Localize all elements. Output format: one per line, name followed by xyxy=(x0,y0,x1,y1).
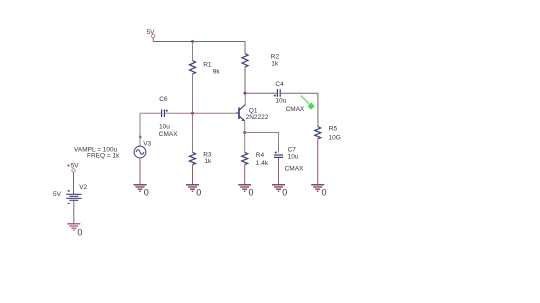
wire R4 upper lead xyxy=(244,133,246,153)
svg-text:C6: C6 xyxy=(159,96,168,103)
svg-text:V2: V2 xyxy=(79,184,87,191)
value 10G xyxy=(329,134,341,141)
ground 0 under C7 xyxy=(272,185,287,198)
value 10u xyxy=(288,154,299,161)
power terminal VCC xyxy=(152,35,155,42)
ground 0 under V2 xyxy=(67,224,82,238)
svg-text:0: 0 xyxy=(282,188,287,198)
power terminal +5V xyxy=(72,169,75,194)
transistor Q1 xyxy=(236,105,245,122)
wire R5 lower lead to ground xyxy=(317,139,319,184)
value 1.4k xyxy=(256,160,269,167)
wire V3 top lead xyxy=(139,113,141,146)
ground 0 under R4 xyxy=(238,185,253,198)
label R5 xyxy=(329,126,338,133)
svg-text:R4: R4 xyxy=(256,152,265,159)
wire collector node to Q1 collector xyxy=(244,93,246,104)
label VAMPL xyxy=(74,146,118,153)
node VCC label 5V xyxy=(147,29,156,36)
attribute CMAX xyxy=(285,165,304,172)
svg-text:10u: 10u xyxy=(159,123,170,130)
svg-text:1k: 1k xyxy=(204,158,212,165)
attribute CMAX xyxy=(159,131,178,138)
wire R4 lower lead to ground xyxy=(244,165,246,185)
label Q1 xyxy=(249,108,258,115)
ground 0 under V3 xyxy=(134,185,149,198)
node +5V label xyxy=(67,163,79,170)
svg-text:9k: 9k xyxy=(213,68,221,75)
value 1k xyxy=(204,158,212,165)
label R1 xyxy=(203,62,212,69)
svg-text:10u: 10u xyxy=(275,98,286,105)
svg-text:FREQ = 1k: FREQ = 1k xyxy=(87,152,120,159)
wire base xyxy=(165,112,236,114)
wire R2 lower lead to collector node xyxy=(244,67,246,93)
wire C6 left lead xyxy=(140,112,161,114)
wire C4 to R5 xyxy=(281,93,318,126)
value 5V xyxy=(53,191,62,198)
svg-text:5V: 5V xyxy=(53,191,62,198)
value 1k xyxy=(271,60,279,67)
svg-text:1k: 1k xyxy=(271,60,279,67)
probe marker xyxy=(301,96,315,110)
resistor R5 xyxy=(315,127,321,139)
svg-text:0: 0 xyxy=(77,227,82,237)
wire C7 lower lead to ground xyxy=(278,158,280,184)
value 10u xyxy=(275,98,286,105)
wire V3 bottom lead xyxy=(139,158,141,184)
value 10u xyxy=(159,123,170,130)
svg-text:V3: V3 xyxy=(143,141,151,148)
value 2N2222 xyxy=(246,114,269,121)
svg-text:C4: C4 xyxy=(275,81,284,88)
junction base node xyxy=(191,112,194,115)
capacitor C4 xyxy=(274,89,281,97)
label R2 xyxy=(271,54,280,61)
wire emitter node to C7 xyxy=(245,133,279,153)
junction emitter node xyxy=(243,131,246,134)
ground 0 under R3 xyxy=(186,185,201,198)
wire R3 upper lead xyxy=(192,113,194,152)
wire R1 upper lead xyxy=(192,42,194,61)
label R4 xyxy=(256,152,265,159)
resistor R4 xyxy=(242,152,248,164)
svg-text:0: 0 xyxy=(249,188,254,198)
resistor R1 xyxy=(190,61,196,75)
label R3 xyxy=(203,152,212,159)
svg-text:CMAX: CMAX xyxy=(159,131,178,138)
wire V2 bottom lead xyxy=(73,200,75,223)
svg-text:CMAX: CMAX xyxy=(285,165,304,172)
V3 plus mark xyxy=(139,136,142,139)
svg-text:CMAX: CMAX xyxy=(286,106,305,113)
wire Q1 emitter to node xyxy=(244,121,246,133)
label C7 xyxy=(288,147,297,154)
svg-text:0: 0 xyxy=(144,188,149,198)
svg-text:0: 0 xyxy=(196,188,201,198)
wire top rail xyxy=(153,41,245,43)
label V3 xyxy=(143,141,151,148)
svg-text:R1: R1 xyxy=(203,62,212,69)
capacitor C6 xyxy=(162,110,168,118)
wire R3 lower lead to ground xyxy=(192,165,194,185)
svg-text:0: 0 xyxy=(322,188,327,198)
junction collector node / C4 xyxy=(244,92,247,95)
ground 0 under R5 xyxy=(311,185,326,198)
svg-text:2N2222: 2N2222 xyxy=(246,114,269,121)
label FREQ xyxy=(87,152,120,159)
label C6 xyxy=(159,96,168,103)
svg-text:R5: R5 xyxy=(329,126,338,133)
wire R1 lower lead to base node xyxy=(192,74,194,113)
wire collector node to C4 xyxy=(245,92,277,94)
junction top rail / R1 xyxy=(191,40,194,43)
resistor R3 xyxy=(190,152,196,164)
svg-text:10G: 10G xyxy=(329,134,341,141)
source V3 xyxy=(134,146,146,158)
attribute CMAX xyxy=(286,106,305,113)
svg-text:C7: C7 xyxy=(288,147,297,154)
label C4 xyxy=(275,81,284,88)
resistor R2 xyxy=(242,54,248,68)
battery V2 xyxy=(66,190,81,204)
wire R2 upper lead xyxy=(244,42,246,54)
capacitor C7 xyxy=(274,151,283,157)
label V2 xyxy=(79,184,87,191)
svg-text:1.4k: 1.4k xyxy=(256,160,269,167)
value 9k xyxy=(213,68,221,75)
svg-text:10u: 10u xyxy=(288,154,299,161)
